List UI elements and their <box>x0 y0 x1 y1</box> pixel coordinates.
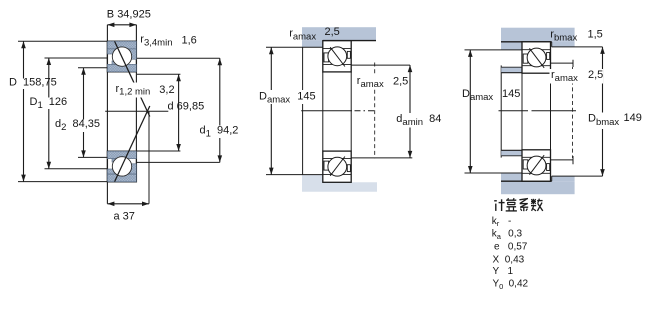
contact line (middle upper) <box>330 47 345 66</box>
bore face line left (right) <box>521 73 523 150</box>
axis centreline (middle) <box>301 110 352 112</box>
housing bar top (middle) <box>302 27 376 40</box>
white bg d1 label <box>199 126 240 139</box>
housing bar step (right) <box>552 42 575 47</box>
housing shoulder lip (middle) <box>302 41 323 48</box>
contact angle line bottom <box>115 106 150 182</box>
contact line (middle lower) <box>330 157 345 176</box>
outer race line (middle upper) <box>323 48 351 50</box>
outer ring bottom left lip (hatched) <box>107 169 115 174</box>
D extension bottom <box>18 181 107 183</box>
contact line (right upper) <box>529 48 544 68</box>
dimension Damax line (middle) <box>270 47 272 174</box>
d bore extension bottom <box>136 150 180 152</box>
a extension right <box>148 111 150 204</box>
svg-text:3,2: 3,2 <box>159 84 174 96</box>
white bg D label <box>8 79 57 90</box>
d2 extension bottom <box>78 156 107 158</box>
right shoulder outline (right upper) <box>547 53 550 60</box>
outer ring bottom band (hatched) <box>107 174 136 182</box>
Da extension top + lip bottom edge (middle) <box>266 46 323 48</box>
inner ring left drop (hatched) <box>112 159 117 162</box>
outer ring bottom right shoulder (hatched) <box>130 164 137 174</box>
d1 extension bottom <box>137 161 220 163</box>
outer ring bottom section box <box>107 151 136 182</box>
svg-text:149: 149 <box>624 112 642 124</box>
svg-text:kr -: kr - <box>492 216 512 228</box>
dimension a line <box>107 203 149 205</box>
left bearing left face / extension line <box>106 25 108 204</box>
left shoulder outline (middle upper) <box>324 53 329 62</box>
svg-text:X 0,43: X 0,43 <box>493 254 525 265</box>
housing bar bottom step (right) <box>552 176 575 181</box>
housing step edge bottom (right) <box>551 176 553 181</box>
housing bar top (right) <box>501 28 575 42</box>
d bore extension top <box>137 73 180 75</box>
svg-text:145: 145 <box>502 88 520 100</box>
shaft shoulder top line (middle) <box>351 64 410 66</box>
svg-text:a 37: a 37 <box>114 211 135 223</box>
spacer flange top (right) <box>501 67 522 73</box>
bore face line right (right) <box>550 73 552 150</box>
dimension Dbmax line (right) <box>602 47 604 176</box>
outer ring right shoulder (hatched) <box>130 49 137 59</box>
ball (middle lower) <box>328 157 347 176</box>
Db extension bottom (right) <box>552 175 603 177</box>
ra leader top (right) <box>551 62 574 64</box>
ra leader bottom (right) <box>551 159 574 161</box>
inner race line (middle upper) <box>323 63 351 65</box>
svg-text:r3,4min: r3,4min <box>140 34 172 49</box>
svg-text:2,5: 2,5 <box>393 75 408 87</box>
white bg d2 label <box>54 120 101 133</box>
white bg Dbmax label (right) <box>587 113 619 130</box>
housing bar bottom (right) <box>501 181 575 194</box>
inner ring bottom band (hatched) <box>107 151 136 159</box>
right shoulder outline (middle upper) <box>347 51 350 58</box>
bearing section box (middle lower) <box>323 151 351 182</box>
Da extension + lip bottom (right) <box>465 49 523 51</box>
D extension top <box>18 40 107 42</box>
housing bore line (middle) <box>323 40 376 42</box>
bearing section box (middle upper) <box>323 41 351 72</box>
ball (right upper) <box>527 48 546 67</box>
dimension damin line (middle) <box>409 65 411 158</box>
svg-text:D 158,75: D 158,75 <box>9 77 57 89</box>
bearing section box (right lower) <box>522 150 551 181</box>
svg-text:Damax: Damax <box>462 88 493 103</box>
bearing section box (right upper) <box>522 42 551 73</box>
dimension d line <box>178 74 180 151</box>
contact line (right lower) <box>529 155 544 175</box>
left shoulder outline (right upper) <box>523 54 528 63</box>
bore face line left (middle) <box>322 72 324 151</box>
header 计算系数 (calculation factors) <box>494 200 497 202</box>
shaft shoulder bottom line (middle) <box>351 157 412 159</box>
inner race line (right lower) <box>522 156 551 158</box>
spacer flange bottom edges (right) <box>501 149 522 151</box>
svg-text:d 69,85: d 69,85 <box>168 101 205 113</box>
ball (middle upper) <box>328 47 347 66</box>
white bg d6985 label <box>169 100 209 111</box>
white bg ramax centre (middle) <box>356 76 410 90</box>
d1 extension top <box>137 57 220 59</box>
svg-text:2,5: 2,5 <box>325 26 340 38</box>
abutment dash-dot line (right) <box>572 67 574 158</box>
bore face line right (middle) <box>350 72 352 151</box>
left shoulder outline (middle lower) <box>324 161 329 170</box>
D1 extension top <box>45 57 108 59</box>
outer race line (right lower) <box>522 172 551 174</box>
shaft ghost bottom region (middle) <box>302 175 377 192</box>
white bg damin label (middle) <box>396 113 442 128</box>
Da extension + lip top (right) <box>465 172 523 174</box>
axis centreline (right) <box>499 110 529 112</box>
housing bore line bottom (right) <box>501 180 552 182</box>
D1 extension bottom <box>45 168 108 170</box>
svg-text:1,5: 1,5 <box>588 29 603 41</box>
ball top section <box>112 47 131 66</box>
left shoulder outline (right lower) <box>523 160 528 169</box>
shaft abutment dash-dot line (middle) <box>374 63 376 159</box>
outer race line (right upper) <box>522 49 551 51</box>
ball (right lower) <box>527 156 546 175</box>
outer race line (middle lower) <box>323 173 351 175</box>
housing shoulder lip top (right) <box>501 42 522 50</box>
svg-text:Y 1: Y 1 <box>493 266 514 277</box>
axis centreline (left view) <box>105 110 168 112</box>
spacer flange bottom (right) <box>501 150 522 156</box>
d2 extension top <box>78 67 107 69</box>
dimension d2 line <box>83 68 85 158</box>
Da extension bottom (middle) <box>266 174 324 176</box>
contact angle line top <box>115 41 150 116</box>
spacer flange top edges (right) <box>501 66 522 68</box>
spacer edge line (right) <box>500 65 502 157</box>
svg-text:Y0 0,42: Y0 0,42 <box>493 279 529 291</box>
right shoulder outline (middle lower) <box>347 165 350 172</box>
dimension D line <box>23 41 25 181</box>
housing bore line (right) <box>501 41 552 43</box>
inner ring left rise (hatched) <box>112 61 117 64</box>
dimension Damax line (right) <box>469 50 471 173</box>
dimension B width line <box>107 24 136 26</box>
white bg r12min label <box>113 83 153 98</box>
housing shoulder face line (middle) <box>302 47 304 174</box>
housing step edge (right) <box>551 42 553 47</box>
white bg Damax label (middle) <box>258 90 321 104</box>
right shoulder outline (right lower) <box>547 164 550 171</box>
inner race line (right upper) <box>522 65 551 67</box>
housing shoulder lip bottom (right) <box>501 173 522 181</box>
svg-text:1,6: 1,6 <box>182 34 197 46</box>
inner ring top band (hatched) <box>107 64 136 72</box>
outer ring left lip (hatched) <box>107 49 115 54</box>
dimension d1 line <box>219 58 221 162</box>
svg-text:2,5: 2,5 <box>588 69 603 81</box>
white bg ramax label (right) <box>550 69 604 84</box>
ball bottom section <box>112 157 131 176</box>
left bearing right face / extension line <box>135 25 137 182</box>
svg-text:ka 0,3: ka 0,3 <box>492 229 523 241</box>
inner race line (middle lower) <box>323 158 351 160</box>
Db extension top (right) <box>552 46 603 48</box>
svg-text:B 34,925: B 34,925 <box>107 9 151 21</box>
outer ring top section box <box>107 41 136 72</box>
white bg D1 label <box>29 98 67 110</box>
outer ring top band (hatched) <box>107 41 136 49</box>
svg-text:e 0,57: e 0,57 <box>494 242 528 253</box>
dimension D1 line <box>48 58 50 169</box>
